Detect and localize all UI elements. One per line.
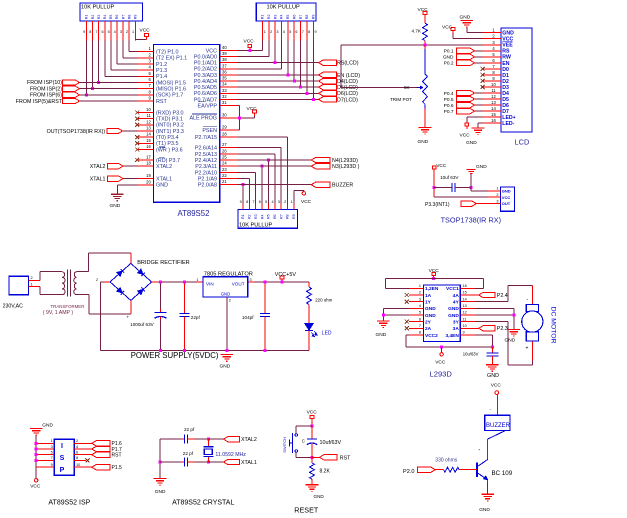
svg-text:GND: GND — [155, 489, 166, 495]
svg-text:1: 1 — [132, 30, 134, 34]
svg-text:40: 40 — [222, 45, 227, 50]
svg-text:R3: R3 — [97, 15, 101, 20]
svg-text:I: I — [61, 443, 63, 450]
svg-text:PSEN: PSEN — [202, 128, 217, 134]
svg-text:7: 7 — [252, 200, 254, 204]
svg-text:R8: R8 — [286, 214, 290, 219]
svg-text:1: 1 — [290, 200, 292, 204]
svg-text:BC 109: BC 109 — [492, 470, 513, 477]
svg-text:13: 13 — [463, 304, 467, 308]
svg-text:R2: R2 — [267, 15, 271, 20]
svg-text:TRANSFORMER: TRANSFORMER — [51, 304, 85, 309]
svg-text:+: + — [526, 346, 529, 352]
svg-text:2: 2 — [31, 276, 33, 280]
svg-text:14: 14 — [491, 106, 496, 111]
svg-text:29: 29 — [222, 125, 227, 130]
svg-text:1000uf 63V: 1000uf 63V — [130, 322, 154, 327]
svg-text:GND: GND — [425, 313, 436, 319]
svg-text:5: 5 — [51, 451, 53, 455]
svg-text:R9: R9 — [292, 214, 296, 219]
svg-text:2: 2 — [76, 439, 78, 443]
svg-text:9: 9 — [315, 30, 317, 34]
svg-text:VIN: VIN — [206, 282, 214, 287]
svg-text:1: 1 — [51, 439, 53, 443]
svg-text:14: 14 — [463, 297, 467, 301]
svg-text:FROM ISP(5)&RST: FROM ISP(5)&RST — [16, 99, 63, 105]
svg-text:1A: 1A — [425, 293, 432, 299]
svg-text:GND: GND — [448, 313, 459, 319]
svg-text:1Y: 1Y — [425, 300, 432, 306]
svg-text:R1: R1 — [261, 15, 265, 20]
svg-text:35: 35 — [222, 76, 227, 81]
svg-text:17: 17 — [146, 154, 151, 159]
svg-text:15: 15 — [491, 112, 496, 117]
svg-text:2: 2 — [96, 278, 98, 282]
svg-text:22: 22 — [222, 173, 227, 178]
svg-text:10: 10 — [463, 324, 467, 328]
svg-text:14: 14 — [146, 132, 151, 137]
svg-text:R5: R5 — [286, 15, 290, 20]
svg-text:+: + — [127, 315, 130, 320]
svg-text:P0.0/AD0: P0.0/AD0 — [194, 55, 217, 61]
svg-text:15: 15 — [146, 138, 151, 143]
svg-text:R2: R2 — [91, 15, 95, 20]
svg-text:FROM ISP(2): FROM ISP(2) — [30, 86, 62, 92]
svg-text:GND: GND — [314, 494, 325, 499]
svg-text:4: 4 — [76, 445, 78, 449]
svg-text:GND: GND — [487, 373, 499, 379]
svg-text:19: 19 — [146, 173, 151, 178]
svg-text:10K PULLUP: 10K PULLUP — [267, 5, 301, 11]
svg-text:P2.7/A15: P2.7/A15 — [195, 135, 217, 141]
svg-text:XTAL2: XTAL2 — [156, 164, 172, 170]
svg-text:P0.7: P0.7 — [444, 109, 454, 115]
svg-text:GND: GND — [418, 139, 429, 145]
svg-text:1: 1 — [196, 278, 198, 282]
svg-text:3: 3 — [250, 278, 252, 282]
svg-text:FROM ISP(10): FROM ISP(10) — [27, 80, 62, 86]
svg-text:R4: R4 — [103, 15, 107, 20]
svg-text:10uf 63V: 10uf 63V — [440, 175, 459, 180]
svg-text:LCD: LCD — [515, 138, 530, 147]
svg-text:4A: 4A — [453, 293, 460, 299]
svg-text:(WR ) P3.6: (WR ) P3.6 — [156, 147, 183, 153]
svg-text:EA/VPP: EA/VPP — [198, 103, 218, 109]
svg-text:XTAL1: XTAL1 — [241, 460, 257, 466]
svg-text:P2.3/A11: P2.3/A11 — [195, 164, 217, 170]
svg-text:R3: R3 — [254, 214, 258, 219]
svg-text:C: C — [302, 439, 305, 444]
svg-text:R9: R9 — [134, 15, 138, 20]
svg-text:R6: R6 — [292, 15, 296, 20]
svg-text:L293D: L293D — [430, 369, 453, 378]
svg-text:(T2) P1.0: (T2) P1.0 — [156, 50, 178, 56]
svg-text:5: 5 — [265, 200, 267, 204]
svg-text:VCC: VCC — [206, 48, 217, 54]
svg-text:R7: R7 — [279, 214, 283, 219]
svg-text:R5: R5 — [267, 214, 271, 219]
svg-text:P0.2/AD2: P0.2/AD2 — [194, 67, 217, 73]
svg-text:3A: 3A — [453, 326, 460, 332]
svg-text:P2.1/A9: P2.1/A9 — [198, 176, 217, 182]
svg-text:25: 25 — [222, 155, 227, 160]
svg-text:5K: 5K — [404, 85, 411, 90]
svg-text:18: 18 — [146, 161, 151, 166]
svg-text:VCC: VCC — [247, 106, 258, 112]
svg-text:P1.4: P1.4 — [156, 74, 167, 80]
svg-text:26: 26 — [222, 148, 227, 153]
svg-text:POWER SUPPLY(5VDC): POWER SUPPLY(5VDC) — [131, 351, 219, 360]
svg-text:3: 3 — [419, 297, 421, 301]
svg-text:R6: R6 — [115, 15, 119, 20]
svg-text:1: 1 — [31, 283, 33, 287]
svg-text:12: 12 — [146, 119, 151, 124]
svg-text:7: 7 — [419, 324, 421, 328]
svg-text:P0.3/AD3: P0.3/AD3 — [194, 73, 217, 79]
svg-text:220 ohm: 220 ohm — [315, 298, 332, 303]
svg-text:11: 11 — [491, 88, 496, 93]
svg-text:3: 3 — [496, 199, 498, 203]
svg-text:N3(L293D ): N3(L293D ) — [332, 164, 360, 170]
svg-text:R6: R6 — [273, 214, 277, 219]
svg-text:P2.0: P2.0 — [403, 469, 415, 475]
svg-text:VCC+5V: VCC+5V — [275, 272, 297, 278]
svg-text:RS(LCD): RS(LCD) — [337, 61, 359, 67]
svg-text:OUT: OUT — [502, 201, 511, 206]
svg-text:GND: GND — [220, 364, 231, 370]
svg-text:P0.6: P0.6 — [444, 103, 454, 109]
svg-text:32: 32 — [222, 94, 227, 99]
svg-text:8: 8 — [308, 30, 310, 34]
svg-text:AT89S52 CRYSTAL: AT89S52 CRYSTAL — [172, 500, 234, 507]
svg-text:11: 11 — [463, 317, 467, 321]
svg-text:RW: RW — [502, 55, 511, 61]
svg-text:FROM ISP(6): FROM ISP(6) — [30, 93, 62, 99]
svg-text:12: 12 — [491, 94, 496, 99]
svg-text:(RXD) P3.0: (RXD) P3.0 — [156, 110, 184, 116]
svg-text:D5: D5 — [502, 97, 509, 103]
svg-text:4.7K: 4.7K — [412, 29, 422, 34]
svg-text:P1.5: P1.5 — [112, 465, 123, 471]
svg-text:P0.4: P0.4 — [444, 91, 454, 97]
svg-text:23: 23 — [222, 167, 227, 172]
svg-text:XTAL1: XTAL1 — [156, 177, 172, 183]
svg-text:10: 10 — [146, 107, 151, 112]
svg-text:VCC: VCC — [244, 39, 255, 45]
svg-text:VCC: VCC — [301, 199, 312, 205]
svg-text:3: 3 — [276, 30, 278, 34]
svg-text:5: 5 — [419, 311, 421, 315]
svg-text:9: 9 — [51, 463, 53, 467]
svg-text:2: 2 — [496, 193, 498, 197]
svg-text:P0.5: P0.5 — [444, 97, 454, 103]
svg-text:P0.6/AD6: P0.6/AD6 — [194, 91, 217, 97]
svg-text:VCC2: VCC2 — [425, 333, 438, 339]
svg-text:D2: D2 — [502, 79, 509, 85]
svg-text:22pf: 22pf — [191, 315, 201, 320]
svg-text:1,2EN: 1,2EN — [425, 286, 439, 292]
svg-text:GND: GND — [466, 140, 477, 146]
svg-text:P2.3: P2.3 — [497, 326, 508, 332]
svg-text:(MOSI) P1.5: (MOSI) P1.5 — [156, 80, 186, 86]
svg-text:(T2 EX) P1.1: (T2 EX) P1.1 — [156, 56, 187, 62]
svg-text:R2: R2 — [248, 214, 252, 219]
svg-text:S: S — [60, 455, 65, 462]
svg-text:VCC: VCC — [418, 7, 429, 13]
svg-text:9: 9 — [83, 30, 85, 34]
svg-text:5: 5 — [289, 30, 291, 34]
svg-text:VOUT: VOUT — [232, 282, 245, 287]
svg-text:8: 8 — [419, 331, 421, 335]
svg-text:GND: GND — [479, 507, 490, 513]
svg-text:11.0592 MHz: 11.0592 MHz — [215, 452, 246, 458]
svg-text:RST: RST — [156, 99, 167, 105]
svg-text:13: 13 — [491, 100, 496, 105]
svg-text:DC MOTOR: DC MOTOR — [550, 307, 557, 344]
svg-text:13: 13 — [146, 126, 151, 131]
svg-text:R5: R5 — [109, 15, 113, 20]
svg-text:GND: GND — [425, 306, 436, 312]
svg-text:R9: R9 — [312, 15, 316, 20]
svg-text:R3: R3 — [273, 15, 277, 20]
svg-text:GND: GND — [42, 423, 53, 429]
svg-text:7: 7 — [302, 30, 304, 34]
svg-text:10: 10 — [491, 82, 496, 87]
svg-text:6: 6 — [419, 317, 421, 321]
svg-text:2: 2 — [270, 30, 272, 34]
svg-text:3: 3 — [51, 445, 53, 449]
svg-text:GND: GND — [502, 188, 511, 193]
svg-text:16: 16 — [463, 284, 467, 288]
svg-text:XTAL2: XTAL2 — [241, 437, 257, 443]
svg-text:RST: RST — [112, 453, 122, 459]
svg-text:VCC: VCC — [502, 195, 511, 200]
svg-text:34: 34 — [222, 82, 227, 87]
svg-text:22 pf: 22 pf — [184, 427, 195, 432]
svg-text:1: 1 — [496, 187, 498, 191]
svg-text:(INT0) P3.2: (INT0) P3.2 — [156, 123, 184, 129]
svg-text:P: P — [60, 467, 65, 474]
svg-text:10uf/63V: 10uf/63V — [320, 440, 342, 446]
svg-text:LED-: LED- — [502, 121, 514, 127]
svg-text:SWITCH: SWITCH — [282, 437, 287, 453]
svg-text:GND: GND — [476, 164, 487, 170]
svg-text:D6(LCD): D6(LCD) — [337, 91, 358, 97]
svg-text:10K PULLUP: 10K PULLUP — [239, 223, 273, 229]
svg-text:VCC: VCC — [491, 383, 502, 389]
svg-text:P2.4: P2.4 — [497, 293, 508, 299]
svg-text:6: 6 — [259, 200, 261, 204]
svg-text:P0.1/AD1: P0.1/AD1 — [194, 61, 217, 67]
svg-text:VCC: VCC — [442, 25, 453, 31]
svg-text:3,4EN: 3,4EN — [445, 333, 459, 339]
svg-text:9: 9 — [240, 200, 242, 204]
svg-text:38: 38 — [222, 57, 227, 62]
svg-text:BUZZER: BUZZER — [332, 183, 353, 189]
svg-text:VCC: VCC — [307, 409, 318, 415]
svg-text:P2.5/A13: P2.5/A13 — [195, 152, 217, 158]
svg-text:11: 11 — [146, 113, 151, 118]
svg-text:RST: RST — [340, 456, 351, 462]
svg-text:D4(LCD): D4(LCD) — [337, 79, 358, 85]
svg-text:20: 20 — [146, 179, 151, 184]
svg-text:P0.1: P0.1 — [444, 49, 454, 55]
svg-text:9: 9 — [463, 331, 465, 335]
svg-text:(RD) P3.7: (RD) P3.7 — [156, 158, 180, 164]
svg-text:VCC: VCC — [435, 359, 446, 365]
svg-text:P2.0/A8: P2.0/A8 — [198, 183, 217, 189]
svg-text:3Y: 3Y — [453, 319, 460, 325]
svg-text:R4: R4 — [260, 214, 264, 219]
svg-text:R7: R7 — [299, 15, 303, 20]
svg-text:GND: GND — [156, 183, 168, 189]
svg-text:P0.5/AD5: P0.5/AD5 — [194, 85, 217, 91]
svg-text:(INT1) P3.3: (INT1) P3.3 — [156, 129, 184, 135]
svg-text:P0.7/AD7: P0.7/AD7 — [194, 97, 217, 103]
svg-text:2: 2 — [126, 30, 128, 34]
svg-text:330 ohms: 330 ohms — [435, 457, 457, 463]
svg-text:( 9V, 1 AMP ): ( 9V, 1 AMP ) — [43, 310, 74, 316]
svg-text:N4(L293D): N4(L293D) — [332, 158, 358, 164]
svg-text:6: 6 — [76, 451, 78, 455]
svg-text:VCC1: VCC1 — [446, 286, 459, 292]
svg-text:16: 16 — [491, 118, 496, 123]
svg-text:2: 2 — [419, 291, 421, 295]
svg-text:31: 31 — [222, 100, 227, 105]
svg-text:6: 6 — [295, 30, 297, 34]
svg-text:P0.4/AD4: P0.4/AD4 — [194, 79, 217, 85]
svg-text:1: 1 — [264, 30, 266, 34]
svg-text:7805 REGULATOR: 7805 REGULATOR — [204, 271, 253, 277]
svg-text:GND: GND — [443, 55, 454, 61]
svg-text:39: 39 — [222, 51, 227, 56]
svg-text:230V,AC: 230V,AC — [3, 303, 24, 309]
svg-text:GND: GND — [460, 15, 471, 21]
svg-text:R8: R8 — [305, 15, 309, 20]
svg-text:8: 8 — [76, 456, 78, 460]
svg-text:(MISO) P1.6: (MISO) P1.6 — [156, 87, 186, 93]
svg-text:10u/63V: 10u/63V — [463, 351, 479, 356]
svg-text:R1: R1 — [85, 15, 89, 20]
svg-text:37: 37 — [222, 63, 227, 68]
svg-text:VCC: VCC — [436, 163, 447, 169]
svg-text:30: 30 — [222, 112, 227, 117]
svg-text:6: 6 — [101, 30, 103, 34]
svg-text:2Y: 2Y — [425, 319, 432, 325]
svg-text:3: 3 — [278, 200, 280, 204]
svg-text:16: 16 — [146, 144, 151, 149]
svg-text:R8: R8 — [127, 15, 131, 20]
svg-text:RESET: RESET — [294, 505, 319, 514]
svg-text:R4: R4 — [280, 15, 284, 20]
svg-text:22 pf: 22 pf — [183, 451, 194, 456]
svg-text:8.2K: 8.2K — [320, 468, 331, 474]
svg-text:BUZZER: BUZZER — [486, 423, 511, 429]
svg-text:21: 21 — [222, 179, 227, 184]
svg-text:GND: GND — [505, 338, 516, 344]
svg-text:OUT(TSOP1738(IR RX)): OUT(TSOP1738(IR RX)) — [47, 129, 106, 135]
svg-text:R7: R7 — [121, 15, 125, 20]
svg-text:LED+: LED+ — [502, 115, 515, 121]
svg-text:ALE PROG: ALE PROG — [189, 116, 217, 122]
svg-text:GND: GND — [448, 306, 459, 312]
svg-text:P2.4/A12: P2.4/A12 — [195, 158, 217, 164]
svg-text:VCC: VCC — [460, 133, 471, 139]
svg-text:36: 36 — [222, 69, 227, 74]
svg-text:(T1) P3.5: (T1) P3.5 — [156, 141, 178, 147]
svg-text:27: 27 — [222, 142, 227, 147]
svg-text:TSOP1738(IR RX): TSOP1738(IR RX) — [441, 216, 501, 225]
svg-text:(TXD) P3.1: (TXD) P3.1 — [156, 117, 183, 123]
svg-text:AT89S52: AT89S52 — [178, 209, 210, 218]
svg-text:28: 28 — [222, 132, 227, 137]
svg-text:GND: GND — [221, 292, 231, 297]
svg-text:8: 8 — [246, 200, 248, 204]
svg-text:10K PULLUP: 10K PULLUP — [81, 5, 115, 11]
svg-text:4: 4 — [114, 30, 116, 34]
svg-text:AT89S52 ISP: AT89S52 ISP — [48, 500, 90, 507]
svg-text:XTAL2: XTAL2 — [90, 164, 106, 170]
svg-text:33: 33 — [222, 88, 227, 93]
svg-text:VCC: VCC — [429, 268, 440, 274]
svg-text:(SCK) P1.7: (SCK) P1.7 — [156, 93, 183, 99]
svg-text:VCC: VCC — [140, 28, 151, 34]
svg-text:7: 7 — [51, 456, 53, 460]
svg-text:XTAL1: XTAL1 — [90, 176, 106, 182]
svg-text:3: 3 — [120, 30, 122, 34]
svg-text:BRIDGE RECTIFIER: BRIDGE RECTIFIER — [137, 260, 190, 266]
svg-text:7: 7 — [95, 30, 97, 34]
svg-text:VCC: VCC — [30, 484, 41, 490]
svg-text:(T0) P3.4: (T0) P3.4 — [156, 135, 178, 141]
svg-text:EN (LCD): EN (LCD) — [337, 73, 360, 79]
svg-text:4: 4 — [283, 30, 285, 34]
svg-text:GND: GND — [110, 203, 121, 209]
svg-text:GND: GND — [376, 332, 387, 338]
svg-text:P2.2/A10: P2.2/A10 — [195, 170, 217, 176]
svg-text:12: 12 — [463, 311, 467, 315]
svg-text:P1.2: P1.2 — [156, 62, 167, 68]
svg-text:4: 4 — [419, 304, 421, 308]
svg-text:LED: LED — [322, 330, 332, 336]
svg-text:D7(LCD): D7(LCD) — [337, 97, 358, 103]
svg-text:8: 8 — [89, 30, 91, 34]
svg-text:P3.3(INT1): P3.3(INT1) — [425, 202, 450, 208]
svg-text:10: 10 — [76, 463, 80, 467]
svg-text:15: 15 — [463, 291, 467, 295]
svg-text:24: 24 — [222, 161, 227, 166]
svg-text:D5(LCD): D5(LCD) — [337, 85, 358, 91]
svg-text:P0.2: P0.2 — [444, 61, 454, 67]
svg-text:P1.3: P1.3 — [156, 68, 167, 74]
svg-text:104pf: 104pf — [242, 315, 254, 320]
svg-text:1: 1 — [419, 284, 421, 288]
svg-text:4Y: 4Y — [453, 300, 460, 306]
svg-text:2: 2 — [229, 299, 231, 303]
svg-text:P2.6/A14: P2.6/A14 — [195, 146, 217, 152]
svg-text:R1: R1 — [241, 214, 245, 219]
svg-text:TRIM POT: TRIM POT — [390, 97, 412, 102]
svg-text:2A: 2A — [425, 326, 432, 332]
svg-text:5: 5 — [108, 30, 110, 34]
svg-text:4: 4 — [271, 200, 273, 204]
svg-text:2: 2 — [284, 200, 286, 204]
